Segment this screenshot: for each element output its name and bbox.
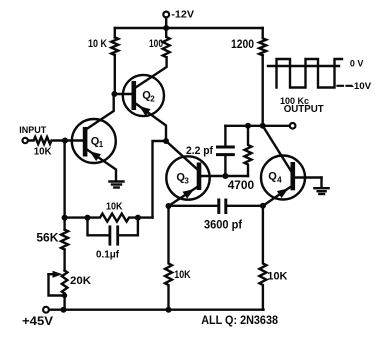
node Q2 emitter junction	[163, 138, 169, 144]
resistor R 10K top-left	[111, 37, 118, 55]
svg-text:3600 pf: 3600 pf	[204, 218, 243, 232]
svg-text:Q: Q	[268, 171, 277, 183]
svg-text:100: 100	[149, 38, 163, 50]
svg-text:10K: 10K	[34, 146, 52, 157]
node cap left tap	[85, 215, 91, 221]
node 4700 top	[245, 123, 251, 129]
resistor R 100	[163, 28, 170, 57]
capacitor 3600pf	[169, 200, 263, 213]
node 3600pf right	[260, 203, 266, 209]
waveform square wave	[277, 59, 343, 88]
resistor 10K feedback	[65, 214, 153, 222]
node RC left	[62, 215, 68, 221]
resistor R 1200	[259, 28, 266, 55]
wire left vertical input to 56K	[63, 141, 65, 230]
resistor 10K bottom-right	[259, 206, 266, 310]
wire output line	[225, 125, 289, 127]
node 1200 output junction	[260, 123, 266, 129]
wire rail left corner down	[114, 28, 116, 37]
svg-text:20K: 20K	[70, 275, 91, 287]
wire Q2 emitter node to RC right	[153, 141, 167, 218]
node Q1 collector / Q2 base / 10K	[111, 91, 117, 97]
terminal input	[23, 138, 28, 143]
terminal output	[290, 123, 296, 129]
wire Q4 collector to ground	[320, 178, 322, 188]
svg-text:4700: 4700	[228, 178, 255, 192]
terminal +45V	[43, 307, 49, 313]
svg-text:3: 3	[184, 177, 189, 186]
svg-text:-12V: -12V	[171, 10, 194, 21]
svg-text:INPUT: INPUT	[19, 124, 46, 135]
wire bottom rail	[49, 309, 263, 311]
resistor 4700	[245, 126, 252, 176]
wire 1200 down to output node	[262, 55, 264, 126]
node input junction	[62, 138, 68, 144]
transistor Q3	[166, 141, 248, 206]
capacitor 0.1uf	[88, 218, 138, 245]
svg-text:10K: 10K	[267, 271, 287, 283]
wire 56K to pot	[63, 250, 65, 271]
node left 10K on rail	[166, 307, 172, 313]
waveform dashes to -10V	[338, 85, 352, 87]
waveform 0V reference line	[268, 65, 339, 67]
ground right of Q4	[314, 188, 328, 194]
svg-text:0.1μf: 0.1μf	[96, 250, 120, 261]
svg-text:10K: 10K	[174, 269, 191, 281]
svg-text:+45V: +45V	[22, 314, 53, 328]
wire 10K to node	[114, 55, 116, 94]
svg-text:1: 1	[99, 140, 104, 149]
terminal -12V	[163, 12, 169, 18]
svg-text:1200: 1200	[231, 37, 254, 51]
svg-text:2.2 pf: 2.2 pf	[186, 145, 213, 157]
svg-text:0 V: 0 V	[350, 58, 364, 68]
resistor 10K bottom-left	[165, 206, 172, 310]
svg-text:ALL Q: 2N3638: ALL Q: 2N3638	[201, 313, 278, 327]
svg-text:56K: 56K	[36, 231, 58, 245]
svg-text:-10V: -10V	[351, 81, 372, 91]
node 2.2pf bottom	[222, 173, 228, 179]
capacitor 2.2pf	[218, 126, 234, 176]
ground under Q1 emitter	[110, 182, 124, 188]
wire top supply rail	[115, 27, 263, 29]
transistor Q2	[114, 57, 166, 141]
transistor Q4	[261, 126, 322, 206]
svg-text:4: 4	[277, 175, 282, 185]
svg-text:OUTPUT: OUTPUT	[284, 104, 324, 115]
node cap right tap	[135, 215, 141, 221]
potentiometer 20K	[49, 271, 68, 310]
transistor Q1	[65, 94, 116, 181]
wire -12V terminal to rail	[165, 18, 167, 28]
svg-text:2: 2	[150, 95, 155, 104]
node Q3 emitter junction	[166, 203, 172, 209]
node junction -12V rail	[163, 25, 169, 31]
resistor 56K	[61, 230, 68, 250]
svg-text:10K: 10K	[106, 202, 123, 213]
node pot on rail	[61, 307, 67, 313]
svg-text:10 K: 10 K	[88, 38, 107, 50]
resistor 10K input	[28, 137, 65, 144]
